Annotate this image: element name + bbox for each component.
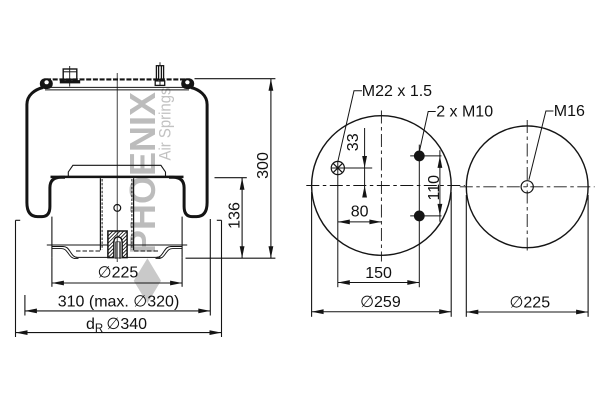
- piston bottom profile left: [52, 247, 161, 258]
- piston bottom hidden line right: [134, 250, 158, 252]
- bellows outline right: [169, 88, 207, 217]
- centre boss hatched block: [100, 204, 140, 305]
- right bead roll: [181, 78, 194, 89]
- M10 lower hole: [414, 211, 425, 222]
- dim 310 extension right: [209, 219, 211, 316]
- piston bore hidden line right: [131, 179, 133, 250]
- M10 leader: [420, 112, 436, 151]
- piston bottom inner S left: [52, 249, 79, 259]
- top plate hatched top line: [44, 78, 190, 80]
- dim 259 line: [312, 311, 452, 313]
- piston bottom hidden line left: [76, 250, 100, 252]
- svg-text:M16: M16: [554, 103, 585, 120]
- dim 225 line: [52, 282, 182, 284]
- piston bore wall left: [99, 178, 101, 250]
- M10 vertical line: [418, 145, 420, 288]
- vertical centreline: [380, 111, 382, 262]
- dim 33 line: [364, 128, 366, 198]
- M22 leader: [338, 91, 362, 161]
- vent hole: [114, 205, 121, 212]
- piston bottom inner S right: [156, 249, 183, 259]
- piston top trapezoid plate: [68, 165, 165, 176]
- dim 80 line: [338, 221, 382, 223]
- svg-text:136: 136: [227, 202, 244, 229]
- svg-text:∅225: ∅225: [509, 294, 550, 311]
- dim 110 line: [439, 150, 441, 222]
- dim 310 extension left: [24, 295, 26, 316]
- dim 225 extension left: [51, 258, 53, 287]
- dim 136 top reference line: [215, 177, 247, 179]
- dim 300 top reference line: [195, 78, 276, 80]
- right air fitting: [155, 62, 165, 85]
- M22 vertical extension: [337, 161, 339, 287]
- M10 upper tick: [410, 155, 441, 157]
- piston bore wall right: [133, 178, 135, 250]
- M16 leader: [529, 111, 554, 180]
- dim 225 extension right: [587, 195, 589, 317]
- dim 225 extension left: [465, 195, 467, 317]
- M22 horizontal reference: [331, 167, 372, 169]
- svg-text:300: 300: [255, 152, 272, 179]
- piston outer wall left: [51, 217, 53, 258]
- watermark diamond logo: [134, 258, 161, 303]
- centre bolt: [116, 242, 121, 259]
- svg-text:80: 80: [351, 204, 369, 221]
- vertical centreline: [526, 120, 528, 254]
- piston bore hidden line left: [101, 179, 103, 250]
- left view centreline: [116, 73, 118, 262]
- M16 centre hole: [521, 181, 533, 193]
- piston top surface: [51, 176, 184, 179]
- svg-text:2 x M10: 2 x M10: [436, 104, 493, 121]
- svg-text:∅259: ∅259: [360, 294, 401, 311]
- left bolt: [60, 66, 79, 87]
- boss bolt hole arch: [114, 237, 122, 258]
- bellows outline left: [27, 88, 65, 217]
- svg-text:33: 33: [345, 133, 362, 151]
- dim 300 line: [270, 79, 272, 259]
- svg-text:∅225: ∅225: [98, 265, 139, 282]
- M10 lower tick: [410, 215, 441, 217]
- dim 340 line: [16, 332, 222, 334]
- dim 310 line: [25, 310, 210, 312]
- left bead roll: [40, 78, 53, 89]
- horizontal centreline: [460, 186, 595, 188]
- M22 symbol: [331, 161, 344, 174]
- piston outer wall right: [181, 217, 183, 258]
- svg-text:110: 110: [426, 175, 443, 201]
- svg-text:Air Springs: Air Springs: [157, 88, 175, 161]
- dim 259 extension left: [311, 192, 313, 317]
- piston floor line: [47, 244, 187, 246]
- dim 150 line: [338, 282, 420, 284]
- dim 259 extension right: [450, 192, 452, 317]
- dim 225 line: [466, 311, 588, 313]
- main circle d225: [466, 126, 588, 248]
- dim 225 extension right: [181, 258, 183, 287]
- svg-text:310 (max. ∅320): 310 (max. ∅320): [58, 293, 180, 310]
- dim 340 extension right: [221, 220, 223, 337]
- dim 340 extension left: [15, 220, 17, 337]
- main circle d259: [312, 116, 452, 256]
- horizontal centreline: [306, 185, 465, 187]
- M10 upper hole: [414, 151, 425, 162]
- svg-text:150: 150: [365, 265, 392, 282]
- svg-text:M22 x 1.5: M22 x 1.5: [362, 83, 432, 100]
- piston bottom profile right: [157, 247, 183, 258]
- bottom reference line: [186, 257, 276, 259]
- top plate lower lines: [44, 86, 190, 88]
- dim 136 line: [241, 178, 243, 259]
